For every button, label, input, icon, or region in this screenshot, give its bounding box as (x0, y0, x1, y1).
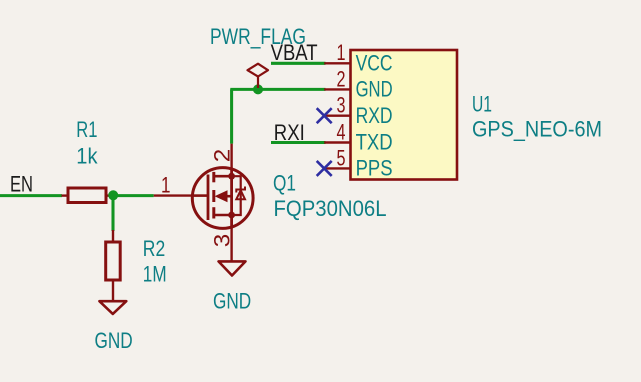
U1 pin 3 RXD (324, 114, 350, 116)
Q1 drain pin (2) (230, 144, 232, 168)
wire drain vertical (230, 89, 233, 143)
wire EN net horizontal (0, 194, 62, 197)
svg-text:FQP30N06L: FQP30N06L (274, 196, 387, 221)
Q1 body diode cathode bar (236, 187, 245, 193)
Q1 channel bar middle (212, 190, 215, 202)
svg-text:R1: R1 (76, 117, 97, 142)
svg-text:TXD: TXD (356, 130, 393, 155)
Q1 internal junction dots (228, 173, 235, 180)
svg-text:GPS_NEO-6M: GPS_NEO-6M (472, 116, 602, 141)
Q1 channel bar bottom (212, 207, 215, 218)
svg-text:1k: 1k (76, 143, 98, 168)
svg-text:GND: GND (213, 289, 251, 314)
svg-text:1: 1 (161, 173, 171, 198)
pin 1 gate of Q1 (154, 194, 193, 196)
junction node R1/R2/gate (108, 190, 118, 200)
svg-text:Q1: Q1 (273, 171, 296, 196)
no-connect X pin 5 (317, 161, 332, 176)
svg-text:3: 3 (210, 234, 235, 248)
Q1 source pin (3) (230, 228, 232, 261)
resistor R1 (62, 117, 114, 203)
Q1 channel bar top (212, 172, 215, 182)
svg-text:EN: EN (10, 172, 33, 197)
Q1 drain connector (214, 175, 232, 178)
ground symbol below R2 (99, 301, 126, 314)
svg-text:3: 3 (337, 93, 346, 118)
Q1 internal vertical (drain-source) (230, 168, 233, 229)
Q1 body diode triangle (236, 190, 245, 199)
svg-text:U1: U1 (472, 91, 492, 116)
IC U1 body (351, 50, 458, 180)
svg-text:2: 2 (337, 66, 346, 91)
svg-text:5: 5 (337, 145, 346, 170)
Q1 gate bar (207, 175, 210, 221)
svg-text:VCC: VCC (356, 51, 393, 76)
U1 pin 4 TXD (324, 141, 350, 143)
svg-text:PPS: PPS (356, 156, 393, 181)
Q1 gate line (193, 194, 208, 197)
wire RXI to pin 4 (271, 141, 326, 144)
svg-text:2: 2 (210, 149, 235, 163)
junction node PWR_FLAG (253, 84, 263, 94)
U1 pin 2 GND (324, 88, 350, 90)
wire GND net horizontal to pin 2 (230, 88, 325, 91)
svg-text:4: 4 (337, 119, 346, 144)
Q1 substrate arrow (216, 191, 227, 202)
no-connect X pin 3 (317, 108, 332, 123)
resistor R2 (106, 230, 167, 301)
svg-text:R2: R2 (143, 236, 165, 261)
Q1 body diode branch (232, 176, 241, 215)
svg-text:GND: GND (95, 328, 133, 353)
svg-text:1M: 1M (143, 262, 167, 287)
wire VBAT to pin 1 (271, 62, 326, 65)
Q1 source connector (214, 214, 232, 217)
svg-text:RXD: RXD (356, 103, 393, 128)
wire R1 to junction to gate (112, 194, 154, 197)
svg-text:1: 1 (337, 40, 346, 65)
ground symbol below Q1 (219, 261, 246, 275)
wire junction to R2 (111, 196, 114, 231)
U1 pin 5 PPS (324, 167, 350, 169)
power flag PWR_FLAG (210, 24, 306, 88)
transistor Q1 body circle (192, 168, 253, 229)
svg-text:VBAT: VBAT (271, 40, 318, 65)
U1 pin 1 VCC (324, 62, 350, 64)
svg-text:GND: GND (356, 77, 393, 102)
